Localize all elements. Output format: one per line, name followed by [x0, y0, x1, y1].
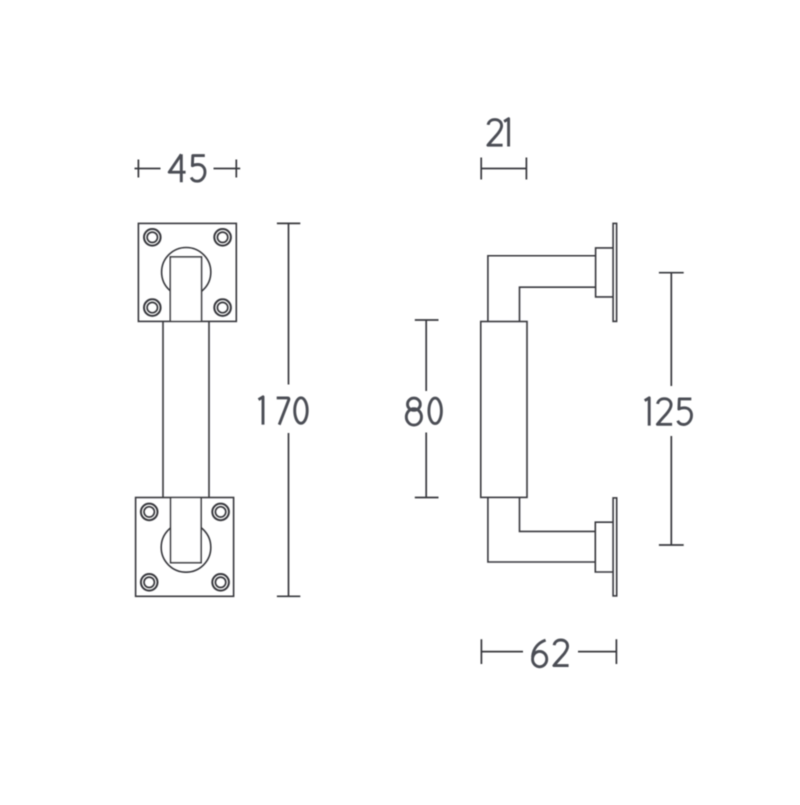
dimension 80: ticks: [415, 320, 439, 498]
screw hole bottom-right of top plate: [214, 299, 231, 316]
side view: upper arm inner edge: [520, 287, 596, 321]
label 125: digit 2: [657, 399, 672, 425]
screw hole bottom-right of bottom plate: [212, 574, 229, 591]
label 80: digit 8: [406, 398, 421, 425]
dimension 80: line: [425, 320, 427, 498]
dimension 45: ticks: [138, 160, 236, 178]
screw hole top-left of bottom plate: [141, 504, 158, 521]
dimension 125: ticks: [659, 273, 684, 545]
label 80: digit 0: [429, 398, 442, 424]
side view: bottom boss: [595, 522, 613, 572]
dimension 62: line: [481, 651, 616, 653]
front view: grip bar: [163, 321, 209, 497]
screw hole bottom-left of bottom plate: [141, 574, 158, 591]
side view: bottom plate edge: [613, 498, 617, 596]
label 45: digit 5: [191, 156, 205, 182]
side view: top plate edge: [613, 223, 617, 321]
screw hole bottom-left of top plate: [144, 299, 161, 316]
label 170: digit 0: [295, 398, 308, 424]
side view: upper arm outer edge: [488, 256, 596, 322]
label 170: digit 7: [277, 398, 289, 425]
label 170: digit 1: [259, 397, 264, 425]
front view: top neck occluder: [170, 257, 201, 322]
label 62: digit 6: [533, 640, 547, 667]
side view: lower arm outer edge: [488, 497, 595, 562]
label 21: digit 2: [488, 120, 503, 146]
label 62: digit 2: [554, 640, 569, 666]
front view: top rose boss circle: [162, 248, 211, 297]
side view: top boss: [596, 248, 614, 297]
screw hole top-right of bottom plate: [212, 504, 229, 521]
front view: bottom rose plate: [136, 498, 234, 597]
front view: bottom rose boss circle: [161, 523, 211, 573]
screw hole top-right of top plate: [214, 229, 231, 246]
label 125: digit 1: [645, 398, 650, 426]
side view: lower arm inner edge: [520, 497, 596, 531]
dimension 170: ticks: [277, 223, 300, 596]
dimension 170: line: [288, 223, 290, 596]
label 125: digit 5: [678, 399, 692, 425]
screw hole top-left of top plate: [144, 229, 161, 246]
front view: top neck outline: [170, 257, 201, 322]
dimension 21: ticks: [481, 158, 526, 180]
front view: top rose plate: [138, 223, 236, 321]
dimension 125: line: [670, 273, 672, 545]
label 45: digit 4: [169, 154, 185, 182]
front view: bottom neck outline: [171, 498, 202, 563]
dimension 21: line: [481, 168, 526, 170]
dimension 45: line: [135, 168, 241, 170]
dimension 62: ticks: [481, 639, 616, 664]
side view: grip bar: [481, 322, 527, 498]
label 21: digit 1: [504, 119, 509, 147]
front view: bottom neck occluder: [171, 498, 202, 563]
